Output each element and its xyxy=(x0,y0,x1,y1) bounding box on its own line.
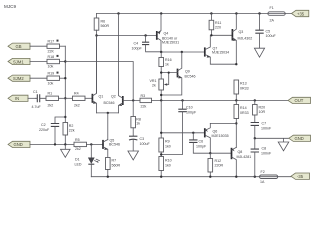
node Q9 collector xyxy=(181,51,183,53)
capacitor C8 xyxy=(251,138,272,176)
svg-text:C2: C2 xyxy=(41,123,46,127)
wire input bus column xyxy=(64,46,66,122)
resistor R13 xyxy=(234,80,249,100)
transistor Q1 xyxy=(92,36,103,113)
svg-text:100pF: 100pF xyxy=(196,144,207,148)
connector SJM1 xyxy=(8,58,30,64)
svg-text:BC546: BC546 xyxy=(109,142,120,146)
connector SJM2 xyxy=(8,75,30,81)
connector GND (left) xyxy=(8,141,30,147)
node output-Zobel xyxy=(254,99,256,101)
svg-text:1k: 1k xyxy=(165,63,169,67)
fuse F2 xyxy=(260,170,278,184)
svg-text:1k0: 1k0 xyxy=(165,163,171,167)
node rail-C5 xyxy=(258,12,260,14)
transistor Q5 (CCS) xyxy=(103,139,120,158)
svg-text:R5: R5 xyxy=(75,138,80,142)
resistor R7 xyxy=(106,158,121,177)
svg-text:GB: GB xyxy=(16,44,22,49)
svg-text:R10: R10 xyxy=(165,159,172,163)
resistor R5 xyxy=(74,138,103,151)
node C3 top xyxy=(132,99,134,101)
svg-text:2A: 2A xyxy=(270,19,275,23)
wire output line xyxy=(152,99,289,101)
node output-bias column xyxy=(160,99,162,101)
svg-text:VR1: VR1 xyxy=(150,79,157,83)
svg-text:+35: +35 xyxy=(297,11,305,16)
transistor Q9 (bias) xyxy=(160,52,196,95)
svg-text:C8: C8 xyxy=(262,146,267,150)
svg-text:Q6: Q6 xyxy=(213,129,218,133)
svg-text:1A: 1A xyxy=(260,180,265,184)
node bus-C2 branch xyxy=(64,116,66,118)
node bus-input xyxy=(64,97,66,99)
svg-text:MJE15035: MJE15035 xyxy=(212,134,229,138)
resistor R10 xyxy=(159,157,172,177)
resistor R18 xyxy=(47,55,65,69)
svg-text:Q9: Q9 xyxy=(185,70,190,74)
node rail-R7 xyxy=(107,176,109,178)
svg-text:22k: 22k xyxy=(141,105,147,109)
svg-text:MJE15031: MJE15031 xyxy=(162,41,179,45)
svg-text:R16: R16 xyxy=(165,58,172,62)
capacitor C1 xyxy=(32,90,47,109)
node rail-R11 xyxy=(210,12,212,14)
svg-text:R2: R2 xyxy=(69,124,74,128)
capacitor C2 xyxy=(39,117,65,144)
svg-text:IN: IN xyxy=(15,96,19,101)
wire Q2 base / feedback xyxy=(123,99,140,101)
wire Q8 base line xyxy=(210,152,231,154)
svg-text:560R: 560R xyxy=(101,24,110,28)
resistor R8 xyxy=(131,100,141,136)
connector -35 xyxy=(291,173,310,179)
svg-text:OUT: OUT xyxy=(295,98,304,103)
svg-text:-35: -35 xyxy=(297,174,304,179)
svg-text:R17: R17 xyxy=(48,40,55,44)
svg-text:R3: R3 xyxy=(141,94,146,98)
diode D1 LED xyxy=(75,144,100,176)
wire xyxy=(30,45,47,47)
transistor Q8 xyxy=(232,147,252,176)
wire xyxy=(30,77,47,79)
svg-text:R20: R20 xyxy=(259,106,266,110)
wire Q4 base line xyxy=(97,35,157,37)
svg-text:560R: 560R xyxy=(112,164,121,168)
svg-text:100uF: 100uF xyxy=(266,34,277,38)
svg-text:C7: C7 xyxy=(262,121,267,125)
svg-text:R13: R13 xyxy=(240,82,247,86)
resistor R16 xyxy=(159,52,172,79)
node rail-Q3 xyxy=(235,12,237,14)
svg-text:C6: C6 xyxy=(199,139,204,143)
node rail-R12 xyxy=(209,176,211,178)
node rail-Q2 xyxy=(117,12,119,14)
svg-text:0R33: 0R33 xyxy=(240,111,249,115)
fuse F1 xyxy=(268,6,285,22)
node R9/R10 midpoint xyxy=(160,153,162,155)
svg-text:10k: 10k xyxy=(48,81,54,85)
node rail-R10 xyxy=(160,176,162,178)
svg-text:F2: F2 xyxy=(261,170,265,174)
svg-text:100nF: 100nF xyxy=(261,151,272,155)
svg-text:R14: R14 xyxy=(240,106,247,110)
node D1 anode xyxy=(90,143,92,145)
svg-text:C3: C3 xyxy=(140,137,145,141)
wire bottom negative rail xyxy=(91,176,291,178)
node C6 top xyxy=(192,132,194,134)
svg-text:BC546: BC546 xyxy=(104,101,115,105)
ground (under C3) xyxy=(128,151,139,160)
svg-text:R19: R19 xyxy=(48,72,55,76)
svg-text:R1: R1 xyxy=(48,92,53,96)
svg-text:LED: LED xyxy=(75,163,82,167)
svg-text:220: 220 xyxy=(215,25,221,29)
svg-text:R12: R12 xyxy=(215,159,222,163)
svg-text:MJE15034: MJE15034 xyxy=(212,51,229,55)
connector +35 xyxy=(292,10,309,16)
svg-text:2k2: 2k2 xyxy=(48,103,54,107)
resistor R11 xyxy=(209,14,221,36)
transistor Q2 xyxy=(104,14,123,113)
svg-text:100uF: 100uF xyxy=(140,142,151,146)
svg-text:BC546: BC546 xyxy=(185,74,196,78)
wire lower driver base line xyxy=(161,132,205,134)
potentiometer VR1 xyxy=(150,73,169,101)
wire Q3 base line xyxy=(211,34,231,36)
resistor R14 xyxy=(234,100,249,147)
svg-text:0R33: 0R33 xyxy=(240,87,249,91)
svg-text:10k: 10k xyxy=(48,65,54,69)
svg-text:D1: D1 xyxy=(75,158,80,162)
svg-text:R4: R4 xyxy=(74,92,79,96)
ground (under C5) xyxy=(254,48,264,57)
svg-text:2k: 2k xyxy=(152,84,156,88)
wire Q6 emitter joiner xyxy=(210,122,236,124)
wire xyxy=(30,61,47,63)
node Q6 collector / R12 / Q8 base xyxy=(209,152,211,154)
connector GB xyxy=(8,43,30,49)
node C2 bottom xyxy=(54,143,56,145)
resistor R1 xyxy=(46,92,73,108)
wire tail down to Q5 xyxy=(107,113,109,140)
node output-R13/R14 xyxy=(235,99,237,101)
svg-text:4.7uF: 4.7uF xyxy=(32,105,42,109)
node Q1 collector / R6 xyxy=(95,34,97,36)
svg-text:Q8: Q8 xyxy=(238,150,243,154)
svg-text:R7: R7 xyxy=(112,159,117,163)
svg-text:MJL4302: MJL4302 xyxy=(238,36,253,40)
svg-text:Q4: Q4 xyxy=(164,32,169,36)
node rail-Q4 xyxy=(160,12,162,14)
connector OUT xyxy=(288,97,311,103)
svg-text:100nF: 100nF xyxy=(261,126,272,130)
svg-text:100pF: 100pF xyxy=(132,47,143,51)
node R11 / Q7 collector xyxy=(210,34,212,36)
capacitor C3 xyxy=(129,136,150,151)
node bus-R18 xyxy=(64,60,66,62)
node Q9 emitter / bias column xyxy=(160,94,162,96)
resistor R20 (Zobel) xyxy=(253,100,266,122)
svg-text:22K: 22K xyxy=(48,49,55,53)
node rail-Q8 xyxy=(235,176,237,178)
svg-text:Q2: Q2 xyxy=(111,95,116,99)
node bias column lower xyxy=(160,132,162,134)
wire ground line right xyxy=(255,137,289,139)
resistor R17 xyxy=(47,40,65,54)
resistor R19 xyxy=(47,72,65,86)
svg-text:R6: R6 xyxy=(101,20,106,24)
wire xyxy=(28,97,36,99)
resistor R9 xyxy=(159,100,171,156)
node R2 bottom / ground xyxy=(64,143,66,145)
svg-text:MJL4281: MJL4281 xyxy=(237,155,252,159)
svg-text:F1: F1 xyxy=(270,6,274,10)
resistor R6 xyxy=(94,14,109,94)
resistor R2 xyxy=(63,123,75,145)
node LTP tail xyxy=(107,112,109,114)
node rail-C8 xyxy=(254,176,256,178)
node Q3 emitter / Q7 emitter xyxy=(235,63,237,65)
svg-text:R11: R11 xyxy=(215,21,221,25)
capacitor C5 xyxy=(255,14,276,48)
transistor Q3 xyxy=(232,14,252,65)
svg-text:GND: GND xyxy=(14,142,23,147)
svg-text:10R: 10R xyxy=(259,110,266,114)
node output-C10 xyxy=(181,99,183,101)
svg-text:R18: R18 xyxy=(48,55,55,59)
transistor Q4 xyxy=(157,14,179,53)
svg-text:C10: C10 xyxy=(186,106,193,110)
transistor Q7 (upper driver) xyxy=(205,35,237,64)
svg-text:220uF: 220uF xyxy=(39,128,50,132)
wire SJM1 row to feedback column xyxy=(65,62,133,101)
wire LTP emitter joiner xyxy=(97,112,119,114)
svg-text:C5: C5 xyxy=(266,30,271,34)
connector IN xyxy=(8,95,28,101)
wire top positive rail xyxy=(97,13,292,15)
capacitor C4 xyxy=(132,36,162,52)
wire VAS output line y=52 xyxy=(161,51,205,53)
ground (right) xyxy=(278,138,289,151)
svg-text:SJM1: SJM1 xyxy=(13,59,24,64)
svg-text:2k2: 2k2 xyxy=(75,147,81,151)
svg-text:2k2: 2k2 xyxy=(74,103,80,107)
svg-text:SJM2: SJM2 xyxy=(13,76,24,81)
svg-text:1k: 1k xyxy=(136,122,140,126)
svg-text:C4: C4 xyxy=(134,41,139,45)
svg-text:Q3: Q3 xyxy=(239,30,244,34)
node VAS/C4 xyxy=(160,51,162,53)
svg-text:C1: C1 xyxy=(33,90,38,94)
svg-text:22k: 22k xyxy=(69,128,75,132)
node C4 top xyxy=(144,34,146,36)
transistor Q6 (lower driver) xyxy=(205,123,229,153)
svg-text:220R: 220R xyxy=(215,164,224,168)
svg-text:Q1: Q1 xyxy=(99,95,104,99)
capacitor C7 xyxy=(251,121,272,138)
ground (left) xyxy=(61,144,71,157)
svg-text:100pF: 100pF xyxy=(186,110,197,114)
resistor R4 xyxy=(73,92,93,108)
svg-text:1k0: 1k0 xyxy=(165,144,171,148)
svg-text:GND: GND xyxy=(295,136,304,141)
node R14 / Q6 emitter xyxy=(235,122,237,124)
wire ground line xyxy=(30,143,74,145)
svg-text:R9: R9 xyxy=(165,140,170,144)
resistor R12 xyxy=(208,153,223,177)
connector GND (right) xyxy=(289,135,311,141)
svg-text:MJC9: MJC9 xyxy=(4,4,16,9)
resistor R3 xyxy=(140,94,152,109)
node C7/C8/gnd xyxy=(254,137,256,139)
capacitor C6 xyxy=(189,133,210,153)
capacitor C10 xyxy=(161,100,197,154)
node bus-R19 xyxy=(64,77,66,79)
